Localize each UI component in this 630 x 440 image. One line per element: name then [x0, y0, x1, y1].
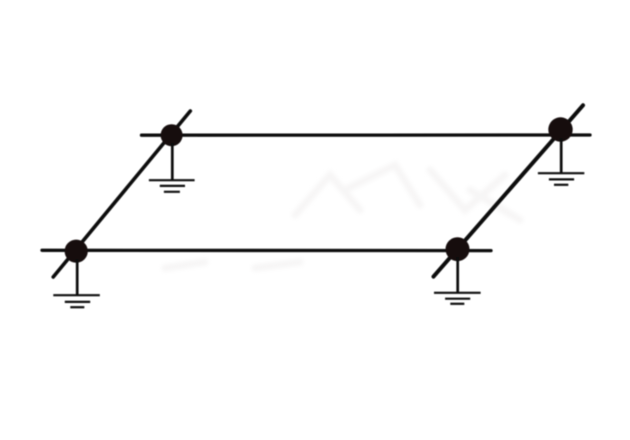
wire: ground lead from node C: [76, 259, 79, 296]
ground symbol at node A: [149, 180, 195, 192]
wire: bottom horizontal: [42, 249, 491, 253]
node A junction dot (top-left): [161, 124, 183, 146]
wire: ground lead from node D: [456, 257, 459, 293]
wire: ground lead from node A: [171, 143, 174, 181]
wire: left diagonal (BL node to TL node with stubs): [53, 111, 190, 277]
wire: ground lead from node B: [560, 138, 563, 174]
ground symbol at node D: [434, 293, 481, 304]
ground symbol at node C: [53, 295, 100, 307]
node B junction dot (top-right): [548, 117, 572, 141]
faint watermark: [165, 165, 520, 268]
ground symbol at node B: [538, 173, 584, 185]
wire: right diagonal (BR node to TR node with stubs): [434, 105, 584, 276]
node C junction dot (bottom-left): [65, 240, 88, 263]
node D junction dot (bottom-right): [446, 237, 470, 261]
wire: top horizontal: [142, 133, 591, 136]
